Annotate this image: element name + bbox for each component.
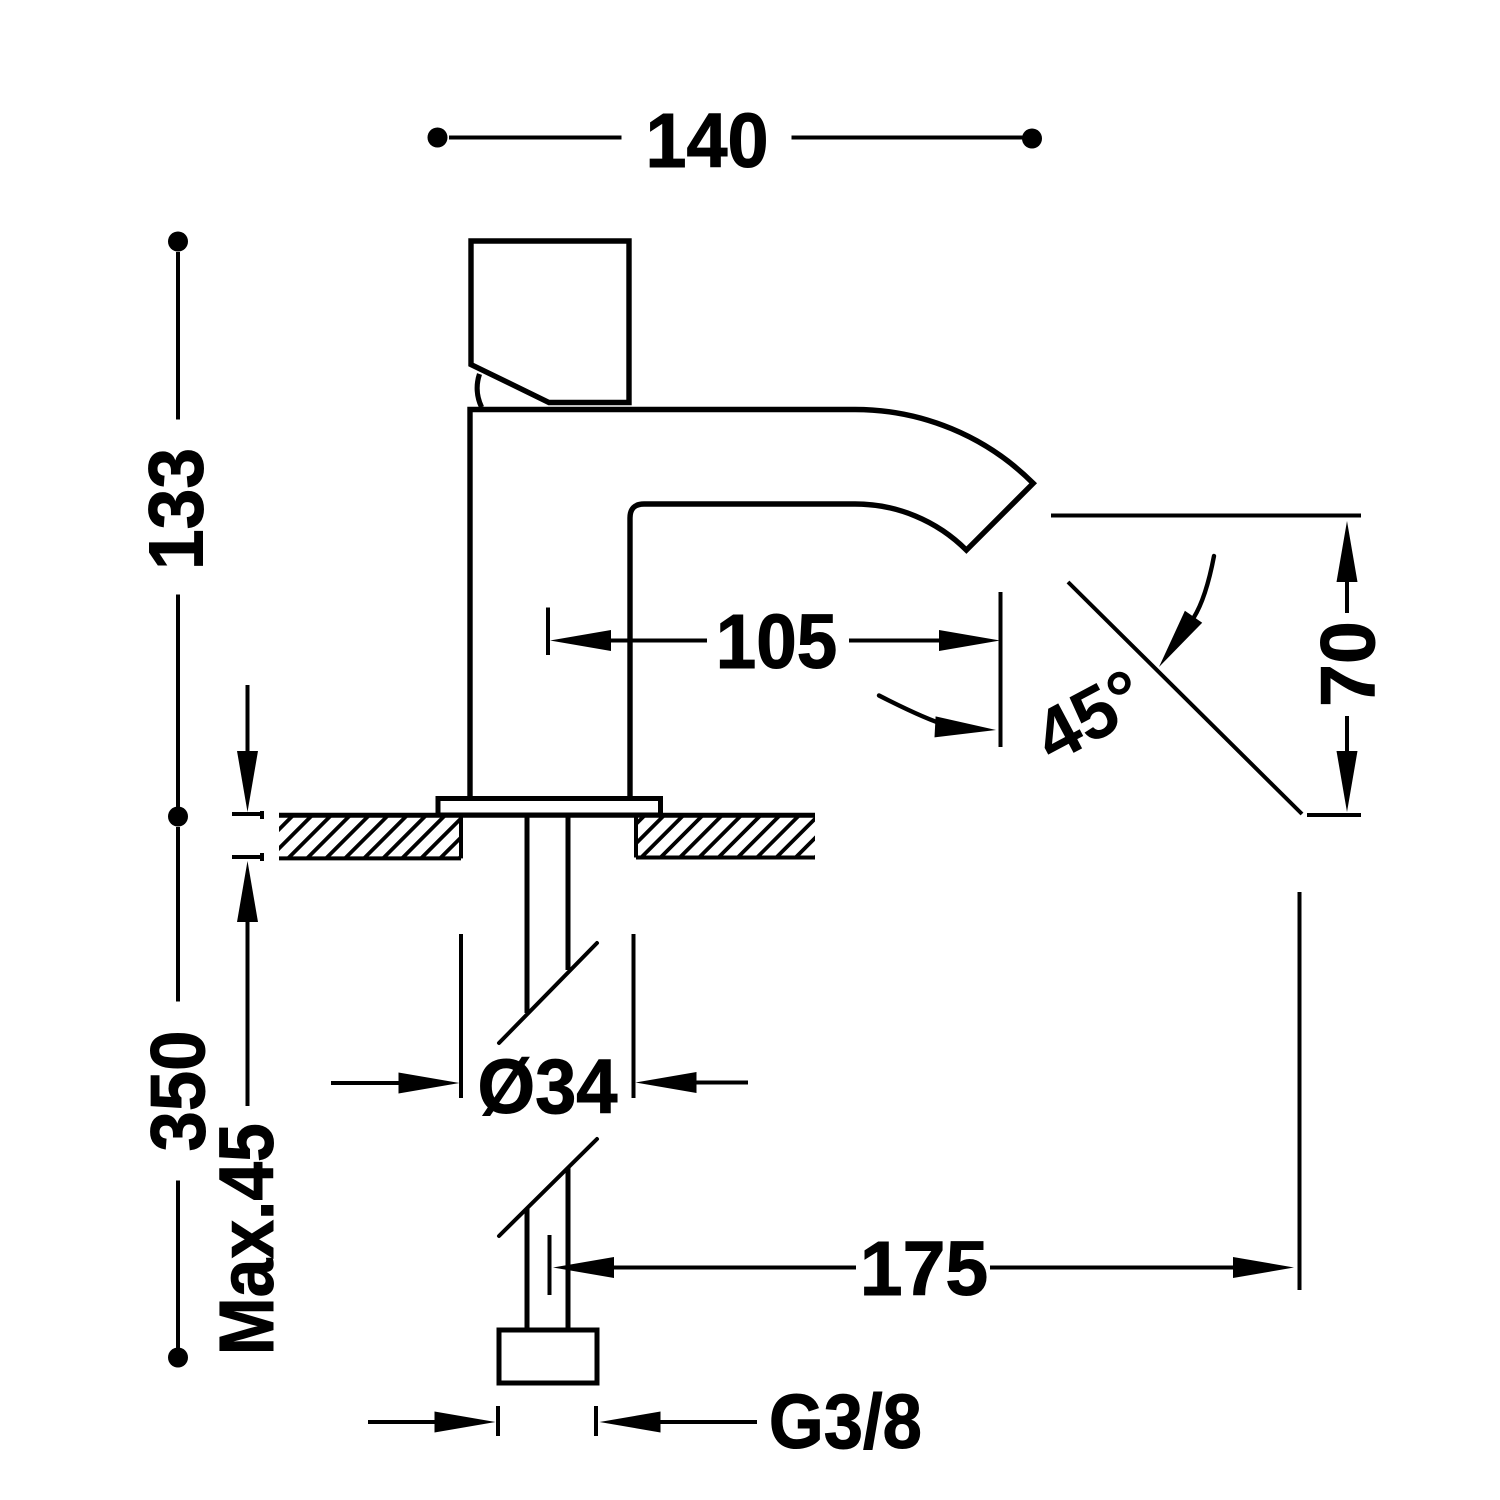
dimension G3/8 thread (368, 1379, 922, 1465)
dimension 70 outlet height (1306, 521, 1392, 815)
dimension Max.45 deck thickness (204, 685, 290, 1355)
dimension diameter 34 (331, 934, 748, 1130)
faucet body and curved spout outline (470, 410, 1033, 798)
dimension 140 overall reach (428, 98, 1043, 184)
supply shaft upper segment (527, 818, 568, 1014)
deck break remnant ticks left (260, 811, 264, 861)
faucet handle block (471, 241, 629, 403)
dimension 105 spout projection (548, 592, 1001, 747)
countertop deck right hatched section (596, 810, 882, 864)
break slash lower (499, 1139, 597, 1236)
label 45 degrees (1021, 653, 1159, 779)
dimension 175 offset (550, 892, 1300, 1312)
swivel arrow at 105 (879, 696, 996, 738)
reference line spout outlet height (1051, 514, 1361, 518)
swivel arrow at 45 degrees (1159, 556, 1214, 667)
svg-text:140: 140 (646, 98, 769, 184)
dimension 133 height (134, 232, 220, 827)
svg-text:G3/8: G3/8 (769, 1379, 922, 1465)
svg-text:Ø34: Ø34 (478, 1044, 618, 1130)
svg-text:133: 133 (134, 448, 220, 570)
dimension 350 hose length (136, 827, 222, 1368)
svg-text:105: 105 (716, 599, 838, 685)
countertop deck left hatched section (244, 810, 526, 864)
svg-text:Max.45: Max.45 (204, 1123, 290, 1355)
base flange (438, 799, 661, 816)
45 degree swivel line (1068, 582, 1302, 814)
break slash upper (499, 943, 597, 1043)
svg-text:175: 175 (860, 1226, 988, 1312)
supply shaft lower segment (527, 1168, 568, 1330)
handle pivot arc (477, 374, 481, 407)
G3/8 connector block (499, 1330, 597, 1383)
svg-text:70: 70 (1306, 621, 1392, 707)
countertop deck surface line (279, 813, 815, 818)
